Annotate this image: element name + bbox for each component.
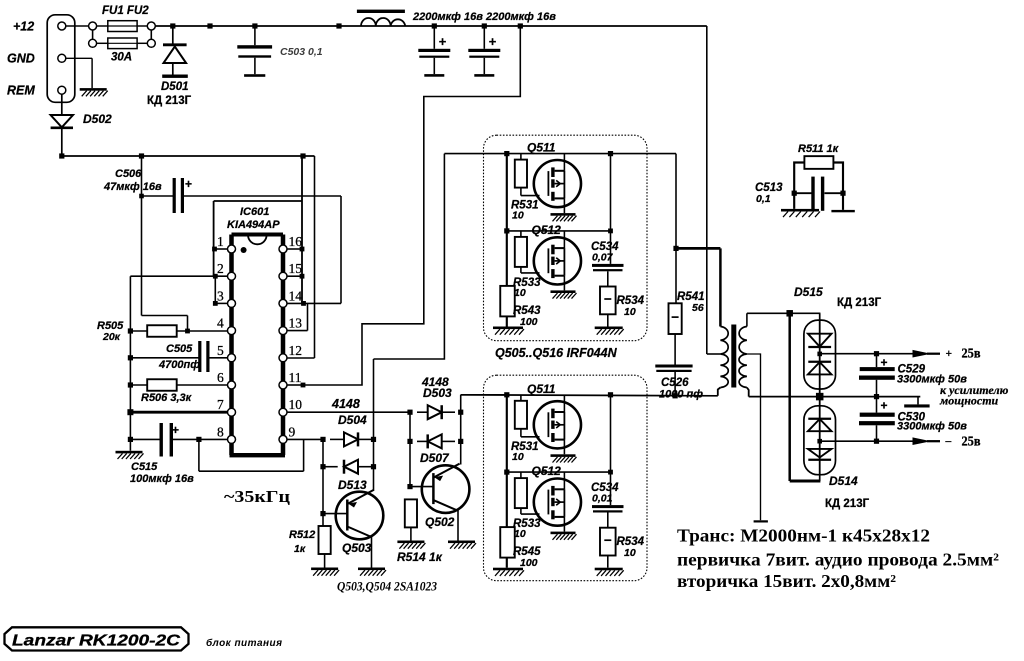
- svg-text:3: 3: [217, 288, 224, 303]
- svg-text:7: 7: [217, 397, 224, 412]
- svg-text:D502: D502: [83, 112, 112, 126]
- svg-text:+: +: [881, 356, 888, 370]
- svg-text:C506: C506: [115, 168, 142, 180]
- svg-text:10: 10: [289, 397, 303, 412]
- svg-text:2200мкф 16в: 2200мкф 16в: [412, 11, 483, 23]
- svg-text:9: 9: [289, 424, 296, 439]
- svg-text:КД 213Г: КД 213Г: [147, 95, 192, 107]
- svg-text:–: –: [945, 436, 952, 448]
- svg-text:Lanzar RK1200-2C: Lanzar RK1200-2C: [12, 633, 181, 650]
- svg-text:вторичка 15вит. 2х0,8мм²: вторичка 15вит. 2х0,8мм²: [677, 571, 896, 591]
- svg-text:0,1: 0,1: [756, 193, 771, 205]
- svg-text:D501: D501: [161, 81, 189, 93]
- svg-text:первичка 7вит. аудио провод: первичка 7вит. аудио провода 2.5мм²: [677, 550, 999, 570]
- svg-text:FU1 FU2: FU1 FU2: [102, 5, 149, 17]
- svg-text:~35кГц: ~35кГц: [224, 487, 290, 506]
- svg-text:100: 100: [520, 557, 538, 569]
- svg-text:100мкф 16в: 100мкф 16в: [130, 473, 194, 485]
- svg-text:D504: D504: [338, 413, 367, 427]
- svg-text:13: 13: [289, 316, 303, 331]
- svg-text:0,01: 0,01: [592, 493, 613, 505]
- svg-text:16: 16: [289, 234, 303, 249]
- svg-text:11: 11: [289, 370, 302, 385]
- svg-text:+: +: [946, 348, 953, 360]
- svg-text:C515: C515: [131, 461, 158, 473]
- svg-text:8: 8: [217, 424, 224, 439]
- svg-text:14: 14: [289, 288, 303, 303]
- svg-text:КД 213Г: КД 213Г: [825, 498, 870, 510]
- svg-text:Q512: Q512: [532, 223, 562, 237]
- svg-text:4148: 4148: [331, 397, 360, 411]
- svg-text:30A: 30A: [111, 52, 132, 64]
- svg-text:R511 1к: R511 1к: [798, 143, 840, 155]
- svg-text:100: 100: [520, 316, 538, 328]
- svg-text:+: +: [172, 423, 179, 437]
- svg-text:KIA494AP: KIA494AP: [227, 219, 280, 231]
- svg-text:Q511: Q511: [527, 382, 556, 396]
- svg-text:Транс: М2000нм-1 к45х28х12: Транс: М2000нм-1 к45х28х12: [677, 526, 930, 546]
- svg-text:25в: 25в: [962, 434, 981, 449]
- svg-text:блок питания: блок питания: [206, 637, 282, 649]
- svg-text:6: 6: [217, 370, 224, 385]
- svg-text:D515: D515: [794, 285, 823, 299]
- svg-text:D513: D513: [338, 478, 367, 492]
- svg-text:Q505..Q516 IRF044N: Q505..Q516 IRF044N: [495, 346, 618, 360]
- svg-text:C503 0,1: C503 0,1: [280, 46, 323, 58]
- svg-text:10: 10: [512, 451, 524, 463]
- svg-text:Q503: Q503: [342, 541, 372, 555]
- svg-text:10: 10: [512, 210, 524, 222]
- svg-text:25в: 25в: [962, 346, 981, 361]
- svg-text:IC601: IC601: [240, 206, 269, 218]
- svg-text:56: 56: [692, 302, 704, 314]
- svg-text:Q511: Q511: [527, 141, 556, 155]
- svg-text:20к: 20к: [102, 331, 121, 343]
- svg-text:3300мкф 50в: 3300мкф 50в: [897, 421, 967, 433]
- svg-text:+: +: [185, 177, 192, 191]
- svg-text:Q503,Q504 2SA1023: Q503,Q504 2SA1023: [337, 580, 437, 594]
- svg-text:2200мкф 16в: 2200мкф 16в: [485, 11, 556, 23]
- svg-text:5: 5: [217, 343, 224, 358]
- svg-text:R514 1к: R514 1к: [397, 550, 443, 564]
- svg-text:Q502: Q502: [425, 515, 455, 529]
- svg-text:D514: D514: [829, 474, 858, 488]
- svg-text:R512: R512: [289, 529, 315, 541]
- svg-text:+: +: [881, 399, 888, 413]
- svg-text:GND: GND: [7, 52, 35, 66]
- svg-text:0,07: 0,07: [592, 251, 614, 263]
- svg-text:10: 10: [514, 528, 526, 540]
- svg-text:10: 10: [514, 287, 526, 299]
- svg-text:2: 2: [217, 261, 224, 276]
- svg-text:12: 12: [289, 343, 303, 358]
- svg-text:C505: C505: [166, 343, 193, 355]
- svg-text:R506 3,3к: R506 3,3к: [141, 392, 193, 404]
- svg-text:КД 213Г: КД 213Г: [837, 297, 882, 309]
- svg-text:15: 15: [289, 261, 303, 276]
- svg-text:47мкф 16в: 47мкф 16в: [103, 181, 162, 193]
- svg-text:D503: D503: [423, 386, 452, 400]
- svg-text:REM: REM: [7, 84, 35, 98]
- svg-text:10: 10: [624, 306, 636, 318]
- svg-text:Q512: Q512: [532, 464, 562, 478]
- svg-text:4700пф: 4700пф: [158, 359, 200, 371]
- svg-text:1: 1: [217, 234, 224, 249]
- svg-text:D507: D507: [420, 451, 450, 465]
- svg-text:1к: 1к: [294, 543, 306, 555]
- svg-text:4: 4: [217, 316, 224, 331]
- svg-text:C526: C526: [661, 377, 689, 389]
- svg-text:+: +: [489, 34, 497, 49]
- svg-text:1000 пф: 1000 пф: [659, 389, 703, 401]
- svg-text:+12: +12: [13, 20, 34, 34]
- svg-text:10: 10: [624, 547, 636, 559]
- svg-text:мощности: мощности: [939, 394, 999, 408]
- svg-text:+: +: [439, 34, 447, 49]
